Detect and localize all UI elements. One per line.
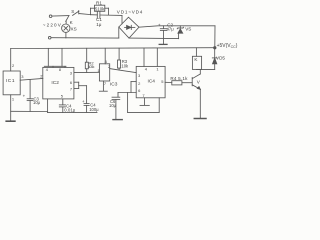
terminal A (~220V top)	[49, 15, 52, 18]
svg-text:+5V(VCC): +5V(VCC)	[217, 43, 238, 49]
wire	[79, 14, 90, 15]
diode symbol inside bridge	[125, 26, 127, 28]
diode VD5	[214, 48, 216, 58]
capacitor C3	[29, 80, 31, 99]
svg-text:0.01μ: 0.01μ	[64, 108, 76, 113]
transistor V	[192, 74, 200, 79]
svg-text:100k: 100k	[88, 65, 95, 69]
svg-text:XS: XS	[71, 26, 77, 31]
svg-text:10μ: 10μ	[109, 103, 117, 108]
wire (IC2 pins 6-7 tie)	[74, 81, 79, 83]
wire (IC1.3 to IC2.2)	[20, 79, 43, 81]
svg-text:IC3: IC3	[110, 82, 118, 88]
terminal B (~220V bottom)	[48, 36, 51, 39]
capacitor C1	[96, 12, 98, 18]
wire	[100, 14, 122, 16]
wire (IC2.3 R2 IC3.1 net)	[74, 71, 100, 73]
wire	[51, 37, 119, 39]
op IC1	[3, 71, 20, 95]
svg-text:S: S	[71, 9, 74, 14]
node +5V	[214, 47, 216, 49]
wire (IC4 pin6)	[118, 92, 136, 94]
svg-text:100μ: 100μ	[89, 107, 99, 112]
svg-text:10μ: 10μ	[33, 100, 41, 105]
wire (IC4 pin2 jog)	[131, 81, 136, 83]
op IC3	[99, 64, 109, 81]
wire (ground loop)	[127, 93, 129, 113]
wire (IC3 pin2 to IC4 pin3)	[110, 69, 137, 73]
ground (C6)	[113, 119, 122, 121]
capacitor C6	[112, 96, 120, 98]
ground (IC3 pin7)	[102, 81, 104, 91]
wire	[196, 68, 214, 70]
svg-text:VD1~VD4: VD1~VD4	[117, 9, 143, 14]
capacitor C2	[163, 26, 165, 29]
ground (IC4 pin7)	[144, 98, 146, 105]
resistor R1	[90, 8, 92, 15]
zener diode VS	[179, 26, 181, 28]
wire (dc minus rail)	[129, 37, 179, 40]
socket XS	[62, 24, 70, 32]
bridge rectifier VD1~VD4	[119, 17, 139, 38]
op IC4	[136, 66, 165, 97]
svg-text:R4 5.1k: R4 5.1k	[170, 76, 188, 81]
resistor R4	[165, 81, 172, 83]
resistor R2	[86, 48, 88, 62]
wire	[118, 27, 120, 38]
svg-text:IC2: IC2	[51, 80, 59, 86]
svg-text:4: 4	[46, 68, 48, 72]
wire	[65, 22, 67, 24]
capacitor C4 100u	[84, 103, 89, 105]
svg-text:1μ: 1μ	[96, 22, 102, 27]
svg-text:+: +	[23, 94, 26, 99]
svg-text:8: 8	[59, 68, 61, 72]
Vcc bus	[11, 47, 215, 50]
svg-text:VS: VS	[185, 26, 191, 31]
svg-text:IC4: IC4	[148, 79, 156, 85]
wire (+5V vertical)	[214, 26, 216, 48]
svg-text:+: +	[158, 23, 161, 28]
svg-text:+: +	[82, 99, 85, 104]
wire	[199, 69, 201, 74]
wire	[91, 14, 98, 16]
wire	[52, 15, 69, 18]
relay contact K (blade)	[66, 16, 69, 22]
ground (IC1 pin1)	[10, 95, 12, 121]
timer IC2	[43, 67, 74, 99]
ground (emitter)	[194, 118, 206, 120]
svg-text:IC1: IC1	[6, 78, 15, 84]
relay coil K	[195, 48, 197, 57]
wire (gnd rail left)	[48, 111, 97, 113]
svg-text:R1: R1	[96, 1, 102, 6]
capacitor C4 0.01u	[62, 99, 64, 105]
svg-text:~220V: ~220V	[43, 23, 62, 28]
svg-text:VD5: VD5	[216, 56, 225, 61]
switch S	[73, 11, 79, 15]
wire	[65, 32, 67, 38]
wire (dc plus rail)	[139, 26, 215, 27]
svg-text:47μ: 47μ	[167, 27, 175, 32]
resistor R3	[118, 48, 120, 60]
svg-text:510k: 510k	[95, 7, 105, 12]
svg-text:10k: 10k	[121, 63, 129, 68]
